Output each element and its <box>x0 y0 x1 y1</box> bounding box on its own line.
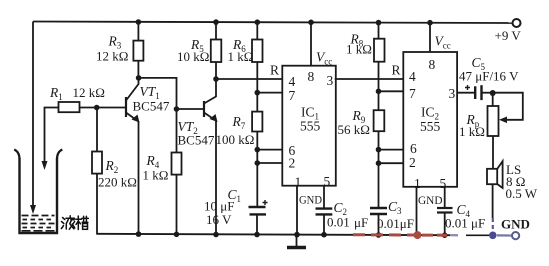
transistor VT1 <box>125 97 127 117</box>
svg-text:47 μF/16 V: 47 μF/16 V <box>459 69 519 84</box>
svg-text:BC547: BC547 <box>178 133 215 148</box>
svg-text:1 kΩ: 1 kΩ <box>143 168 169 183</box>
potentiometer Rp <box>492 93 494 106</box>
node VT2 collector / R5 / pin4 <box>213 76 219 82</box>
svg-text:2: 2 <box>409 155 416 170</box>
transistor VT2 <box>203 101 205 117</box>
resistor R4 <box>176 109 178 153</box>
op-amp IC1 555 <box>282 66 336 186</box>
wire VT1 collector to VT2 base <box>139 78 204 109</box>
wire IC1 pin7 line <box>257 92 282 94</box>
capacitor C2 <box>323 186 325 209</box>
svg-text:555: 555 <box>420 119 441 134</box>
speaker LS <box>487 169 497 184</box>
resistor R9 <box>374 110 385 131</box>
svg-text:4: 4 <box>409 69 416 84</box>
svg-text:7: 7 <box>289 88 296 103</box>
svg-text:555: 555 <box>300 119 321 134</box>
wire left rail electrode <box>32 22 34 207</box>
wire IC2 pin2 <box>379 162 404 164</box>
wire Rp wiper feedback <box>493 93 523 120</box>
svg-text:12 kΩ: 12 kΩ <box>73 85 105 100</box>
resistor R5 <box>213 19 219 25</box>
wire R1 left electrode <box>45 108 59 163</box>
wire bottom ground rail <box>97 234 450 235</box>
svg-text:GND: GND <box>418 193 443 207</box>
svg-text:0.01: 0.01 <box>327 215 350 230</box>
svg-text:GND: GND <box>501 217 530 232</box>
svg-text:8: 8 <box>429 57 436 72</box>
svg-text:0.01μF: 0.01μF <box>377 216 414 231</box>
svg-text:+9 V: +9 V <box>495 28 522 43</box>
red annotation dashes on rail <box>353 233 447 236</box>
wire IC1 pin3 to IC2 pin4 <box>335 78 404 80</box>
terminal +9V <box>513 19 521 27</box>
svg-text:R: R <box>392 63 401 78</box>
svg-text:56 kΩ: 56 kΩ <box>338 122 370 137</box>
wire IC1 pin1 to ground <box>296 186 298 235</box>
wire IC1 pin6 <box>257 149 282 151</box>
capacitor C1 <box>249 206 266 208</box>
label 液槽 <box>61 216 88 230</box>
svg-text:7: 7 <box>409 86 416 101</box>
svg-text:10 kΩ: 10 kΩ <box>177 49 209 64</box>
svg-text:R: R <box>270 63 279 78</box>
svg-text:16 V: 16 V <box>206 212 232 227</box>
node R1/R2/base junction <box>94 105 100 111</box>
svg-text:4: 4 <box>289 74 296 89</box>
svg-text:BC547: BC547 <box>133 99 170 114</box>
svg-text:0.5 W: 0.5 W <box>506 186 538 201</box>
svg-text:1 kΩ: 1 kΩ <box>459 124 485 139</box>
wire IC2 pin7 line <box>379 90 404 92</box>
node VT1 collector <box>136 75 142 81</box>
svg-text:3: 3 <box>327 73 334 88</box>
resistor R2 <box>96 108 98 152</box>
svg-text:3: 3 <box>449 86 456 101</box>
svg-text:μF: μF <box>354 215 368 230</box>
wire IC2 pin1 <box>416 187 418 235</box>
svg-text:6: 6 <box>410 141 417 156</box>
svg-text:GND: GND <box>299 193 322 207</box>
wire IC2 pin6 <box>379 149 404 151</box>
wire IC1 Vcc <box>308 20 314 26</box>
capacitor C4 <box>444 187 446 208</box>
resistor R6 <box>254 19 260 25</box>
resistor R7 <box>252 112 262 132</box>
liquid level dashes <box>22 216 55 231</box>
ground <box>296 235 298 247</box>
svg-text:0.01 μF: 0.01 μF <box>445 216 485 231</box>
wire top +9V rail <box>33 22 512 24</box>
wire IC1 pin2 <box>257 162 282 164</box>
node VT2 base / R4 <box>174 106 180 112</box>
svg-text:12 kΩ: 12 kΩ <box>96 49 128 64</box>
svg-text:8: 8 <box>308 69 315 84</box>
svg-text:1 kΩ: 1 kΩ <box>346 42 372 57</box>
wire IC2 Vcc <box>427 20 433 26</box>
wire R1 to VT1 base <box>80 107 127 109</box>
wire speaker to rail <box>492 184 494 218</box>
op-amp IC2 555 <box>403 52 457 187</box>
red node IC2 pin1 <box>414 231 422 239</box>
resistor R3 <box>136 19 142 25</box>
svg-text:1 kΩ: 1 kΩ <box>228 49 254 64</box>
liquid tank beaker <box>14 150 19 160</box>
svg-text:100 kΩ: 100 kΩ <box>216 132 255 147</box>
terminal GND <box>450 234 462 236</box>
node VT1 emitter on rail <box>136 231 142 237</box>
capacitor C3 <box>370 207 387 209</box>
capacitor C5 <box>457 92 475 94</box>
resistor R1 <box>59 102 80 112</box>
svg-text:220 kΩ: 220 kΩ <box>98 175 137 190</box>
resistor R8 <box>376 20 382 26</box>
svg-text:2: 2 <box>289 156 296 171</box>
wire IC1 pin4 reset line <box>216 78 282 80</box>
